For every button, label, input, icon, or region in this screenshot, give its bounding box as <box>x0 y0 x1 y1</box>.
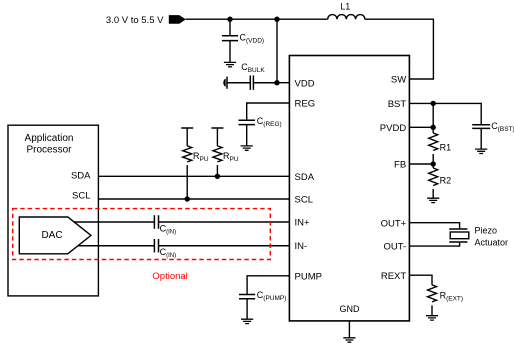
svg-text:L1: L1 <box>340 2 350 12</box>
svg-text:DAC: DAC <box>41 230 62 241</box>
svg-text:R2: R2 <box>440 176 452 186</box>
svg-text:IN+: IN+ <box>295 218 311 229</box>
svg-text:BST: BST <box>388 99 407 110</box>
svg-text:SDA: SDA <box>295 172 315 183</box>
svg-text:C(VDD): C(VDD) <box>240 32 265 44</box>
svg-text:REG: REG <box>295 99 316 110</box>
svg-text:Application: Application <box>25 133 74 144</box>
svg-text:Actuator: Actuator <box>475 237 509 247</box>
svg-text:PUMP: PUMP <box>295 271 322 282</box>
svg-text:IN-: IN- <box>295 241 308 252</box>
svg-text:OUT-: OUT- <box>383 242 406 253</box>
svg-text:Optional: Optional <box>152 271 187 282</box>
svg-text:FB: FB <box>394 160 406 171</box>
svg-text:SDA: SDA <box>71 171 91 182</box>
svg-text:GND: GND <box>340 304 361 314</box>
svg-text:R(EXT): R(EXT) <box>440 290 463 302</box>
svg-text:3.0 V to 5.5 V: 3.0 V to 5.5 V <box>106 15 164 26</box>
svg-text:REXT: REXT <box>381 271 407 282</box>
svg-text:C(BST): C(BST) <box>491 121 514 133</box>
svg-text:OUT+: OUT+ <box>381 218 407 229</box>
svg-text:VDD: VDD <box>295 78 315 89</box>
svg-text:SCL: SCL <box>295 195 313 206</box>
svg-text:PVDD: PVDD <box>380 123 407 134</box>
svg-text:R1: R1 <box>440 143 452 153</box>
svg-text:SCL: SCL <box>72 190 90 201</box>
svg-text:C(IN): C(IN) <box>160 223 177 235</box>
svg-text:Processor: Processor <box>26 145 72 156</box>
svg-text:SW: SW <box>391 75 406 86</box>
svg-text:C(IN): C(IN) <box>160 247 177 259</box>
svg-text:Piezo: Piezo <box>475 225 498 235</box>
svg-text:CBULK: CBULK <box>241 62 265 74</box>
svg-text:RPU: RPU <box>223 151 239 163</box>
svg-text:C(REG): C(REG) <box>257 116 282 128</box>
svg-text:C(PUMP): C(PUMP) <box>257 290 287 302</box>
svg-text:RPU: RPU <box>193 151 209 163</box>
